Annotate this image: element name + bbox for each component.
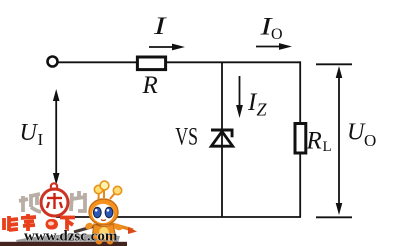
wire: resistor to top-right corner [167,61,302,63]
resistor R [137,57,165,70]
dimension tick top for UO [316,63,352,65]
voltage arrow UI (double headed) [53,89,60,185]
magnifier lens with xin [41,183,68,216]
svg-text:R: R [142,72,158,99]
wire: RL to bottom [299,153,301,218]
red character xia [60,218,75,232]
mascot mouth [101,220,106,221]
mascot legs [96,239,103,245]
wire: zener branch vertical [221,62,223,217]
current arrow IZ [236,76,243,118]
svg-text:Z: Z [257,100,268,120]
svg-text:O: O [364,131,376,150]
svg-text:U: U [20,120,39,146]
watermark [0,181,137,246]
character zhao (gray) [19,194,41,212]
label IO [259,14,282,44]
current arrow IO [256,43,292,50]
svg-text:I: I [153,13,168,40]
label UI [20,120,44,149]
svg-text:L: L [323,139,332,155]
dark bottom band [0,242,127,246]
mascot antennas [94,181,121,199]
label RL [306,128,332,156]
mascot body [92,224,116,241]
current arrow I [149,44,185,51]
red text weiku yixia [4,214,36,231]
wire: right branch down to RL [299,61,301,123]
resistor RL [295,124,306,154]
character pian (gray) [71,191,85,211]
svg-text:I: I [38,130,44,149]
label IZ [247,89,268,120]
svg-text:O: O [271,26,283,43]
gray swoosh banner [16,234,120,245]
voltage arrow UO (double headed) [336,66,343,215]
dimension tick bottom for UO [316,216,352,218]
zener diode VS [211,129,234,147]
svg-text:R: R [306,128,322,155]
wire: bottom [56,216,301,218]
mascot stick [74,221,112,232]
mascot head [89,199,118,225]
svg-text:www.dzsc.com: www.dzsc.com [24,229,118,245]
wire: terminal to resistor R [59,61,137,63]
mascot arms [84,222,94,231]
input terminal [48,57,58,67]
svg-text:VS: VS [175,123,198,150]
red lens blob [46,219,59,230]
mascot eyes [93,207,101,217]
label UO [347,120,376,151]
